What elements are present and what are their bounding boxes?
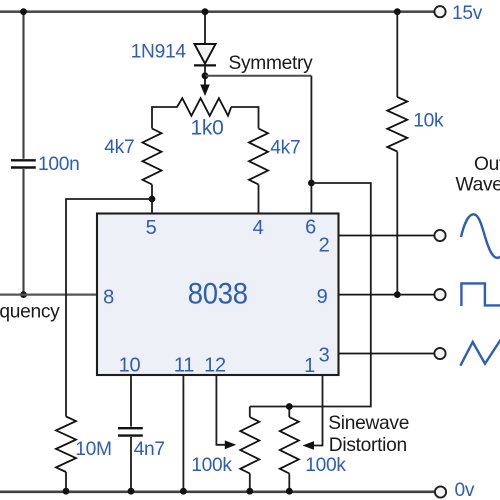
node symmetry junction [202, 72, 209, 79]
node junction top rail / 10k [394, 8, 401, 15]
wire pin 6 stub [310, 183, 312, 214]
potentiometer 1k0 body [177, 98, 231, 116]
wire pin 3 output [339, 353, 435, 355]
svg-text:100n: 100n [38, 154, 80, 175]
terminal 0v [435, 486, 446, 497]
node junction 100n / pin8 wire [20, 291, 27, 298]
node junction top rail / 100n branch [20, 8, 27, 15]
wire symmetry vertical to pin 6 node [310, 76, 312, 183]
svg-text:10: 10 [119, 355, 141, 377]
arrow wiper right 100k [303, 441, 315, 450]
node junction 100k right / 0V rail [286, 488, 293, 495]
resistor 4k7 right [249, 129, 268, 185]
node junction 10k / pin 9 wire [394, 291, 401, 298]
svg-text:4n7: 4n7 [134, 439, 165, 460]
svg-text:4: 4 [253, 217, 264, 239]
svg-text:6: 6 [305, 217, 316, 239]
wire 4n7 to 0V rail [130, 437, 132, 492]
svg-text:100k: 100k [191, 455, 232, 476]
wire frequency to 10M [66, 199, 152, 417]
svg-text:12: 12 [204, 355, 226, 377]
wire wiper arrow stem to 1k0 [204, 76, 206, 86]
svg-text:15v: 15v [452, 3, 483, 24]
wire pin 1 to right 100k wiper [313, 376, 323, 446]
svg-text:8: 8 [103, 287, 114, 309]
node junction pin6 / distortion wire [308, 180, 315, 187]
wire pin 9 output [339, 294, 435, 296]
arrow wiper left 100k [225, 440, 236, 449]
node junction top rail / diode branch [202, 8, 209, 15]
wire pin 12 to left 100k wiper [216, 376, 226, 445]
net 0V bottom rail [0, 490, 435, 493]
capacitor 4n7 [118, 427, 143, 429]
wire 100k right bottom lead [288, 474, 290, 492]
icon square wave [461, 283, 500, 306]
wire pin6 node to distortion pots [250, 183, 371, 407]
wire 10k top lead [396, 12, 398, 97]
wire 10M to 0V rail [65, 472, 67, 492]
svg-text:Output: Output [474, 154, 500, 175]
potentiometer 100k left body [240, 417, 259, 474]
resistor 4k7 left [143, 129, 162, 185]
svg-text:Frequency: Frequency [0, 302, 60, 323]
wire symmetry horizontal [205, 75, 311, 77]
svg-text:5: 5 [146, 217, 157, 239]
svg-text:Sinewave: Sinewave [328, 413, 409, 434]
wire diode cathode to symmetry node [204, 66, 206, 76]
wire pin 10 to 4n7 [130, 376, 132, 427]
svg-text:11: 11 [174, 355, 194, 377]
svg-text:8038: 8038 [188, 278, 248, 311]
svg-text:4k7: 4k7 [270, 138, 300, 159]
svg-text:0v: 0v [455, 480, 475, 500]
capacitor 100n [11, 159, 36, 161]
svg-text:9: 9 [317, 286, 328, 308]
svg-text:3: 3 [319, 345, 330, 367]
resistor 10M [56, 417, 76, 473]
terminal 15v [434, 6, 445, 17]
node junction 100k right / distortion wire [286, 403, 293, 410]
svg-text:Distortion: Distortion [329, 435, 407, 456]
terminal square output [434, 289, 445, 300]
svg-text:10k: 10k [413, 111, 444, 132]
svg-text:1N914: 1N914 [131, 42, 187, 63]
wire 100k left bottom lead [249, 474, 251, 492]
icon triangle wave [460, 340, 500, 366]
wire pin 11 to 0V rail [182, 376, 184, 492]
svg-text:4k7: 4k7 [104, 137, 134, 158]
resistor 10k [387, 97, 407, 152]
wire 1k0 left lead [152, 107, 178, 129]
node junction pin 11 / 0V rail [180, 488, 187, 495]
potentiometer 100k right body [280, 417, 299, 474]
wire 10k bottom lead to pin 9 wire [396, 152, 398, 295]
svg-text:Waveforms: Waveforms [456, 175, 500, 196]
arrow wiper of 1k0 [200, 85, 210, 97]
wire 4k7 right to pin 4 [258, 185, 260, 214]
svg-text:2: 2 [319, 235, 330, 257]
wire 100k right top lead [288, 407, 290, 418]
terminal sine output [434, 230, 445, 241]
wire 100n branch from top rail [22, 12, 24, 159]
node junction 10M / 0V rail [63, 488, 70, 495]
wire pin 8 (frequency input) [0, 293, 98, 295]
node junction pin5 / frequency wire [149, 196, 156, 203]
wire 1k0 right lead [231, 107, 259, 129]
wire pin 2 output [339, 235, 435, 237]
wire 100n to pin8 wire [22, 169, 24, 295]
svg-text:100k: 100k [305, 455, 346, 476]
svg-text:1k0: 1k0 [191, 117, 224, 140]
icon sine wave [461, 214, 500, 257]
wire diode branch from top rail [204, 12, 206, 44]
node junction 4n7 / 0V rail [128, 488, 135, 495]
svg-text:10M: 10M [75, 439, 111, 460]
wire 4k7 left to pin 5 [151, 185, 153, 214]
wire 100k left top lead [249, 407, 251, 418]
op-amp IC U1 8038 body [97, 214, 339, 376]
net +15V top rail [0, 10, 434, 13]
svg-text:1: 1 [304, 355, 315, 377]
terminal triangle output [434, 348, 445, 359]
diode 1N914 [194, 44, 215, 64]
node junction 100k left / 0V rail [246, 488, 253, 495]
svg-text:Symmetry: Symmetry [229, 53, 314, 74]
